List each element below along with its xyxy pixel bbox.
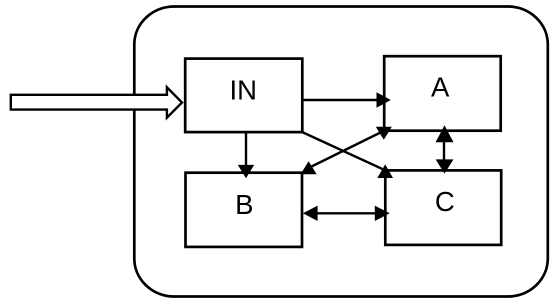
arrowhead at A bottom-left (points down) <box>376 127 392 140</box>
outer rounded container <box>134 7 548 297</box>
double arrow A to C (vertical) <box>436 125 454 173</box>
arrowhead at C top-left (points up) <box>377 164 393 178</box>
svg-text:C: C <box>435 186 455 217</box>
box C <box>385 170 501 245</box>
arrow IN to B (vertical) <box>238 132 254 178</box>
diagonal wire IN to C <box>302 132 385 170</box>
svg-text:A: A <box>431 71 450 102</box>
svg-text:B: B <box>235 189 253 220</box>
double arrow B to C (horizontal) <box>303 206 390 221</box>
box IN <box>185 59 302 133</box>
box A <box>384 56 501 131</box>
arrow IN to A (horizontal) <box>302 92 391 108</box>
box B <box>186 173 303 247</box>
input arrow (hollow block arrow entering container) <box>11 87 182 117</box>
arrowhead at B top-right (points up) <box>301 161 317 174</box>
svg-text:IN: IN <box>229 74 257 105</box>
diagonal wire B to A <box>309 131 385 169</box>
